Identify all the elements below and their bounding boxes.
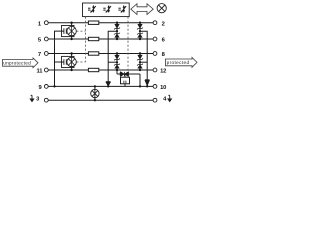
svg-text:7: 7	[38, 52, 41, 58]
svg-text:11: 11	[37, 69, 44, 75]
svg-text:protected: protected	[167, 60, 190, 65]
svg-text:unprotected: unprotected	[3, 60, 31, 65]
svg-text:12: 12	[160, 69, 166, 75]
svg-text:2: 2	[162, 21, 165, 27]
svg-text:10: 10	[160, 85, 166, 91]
